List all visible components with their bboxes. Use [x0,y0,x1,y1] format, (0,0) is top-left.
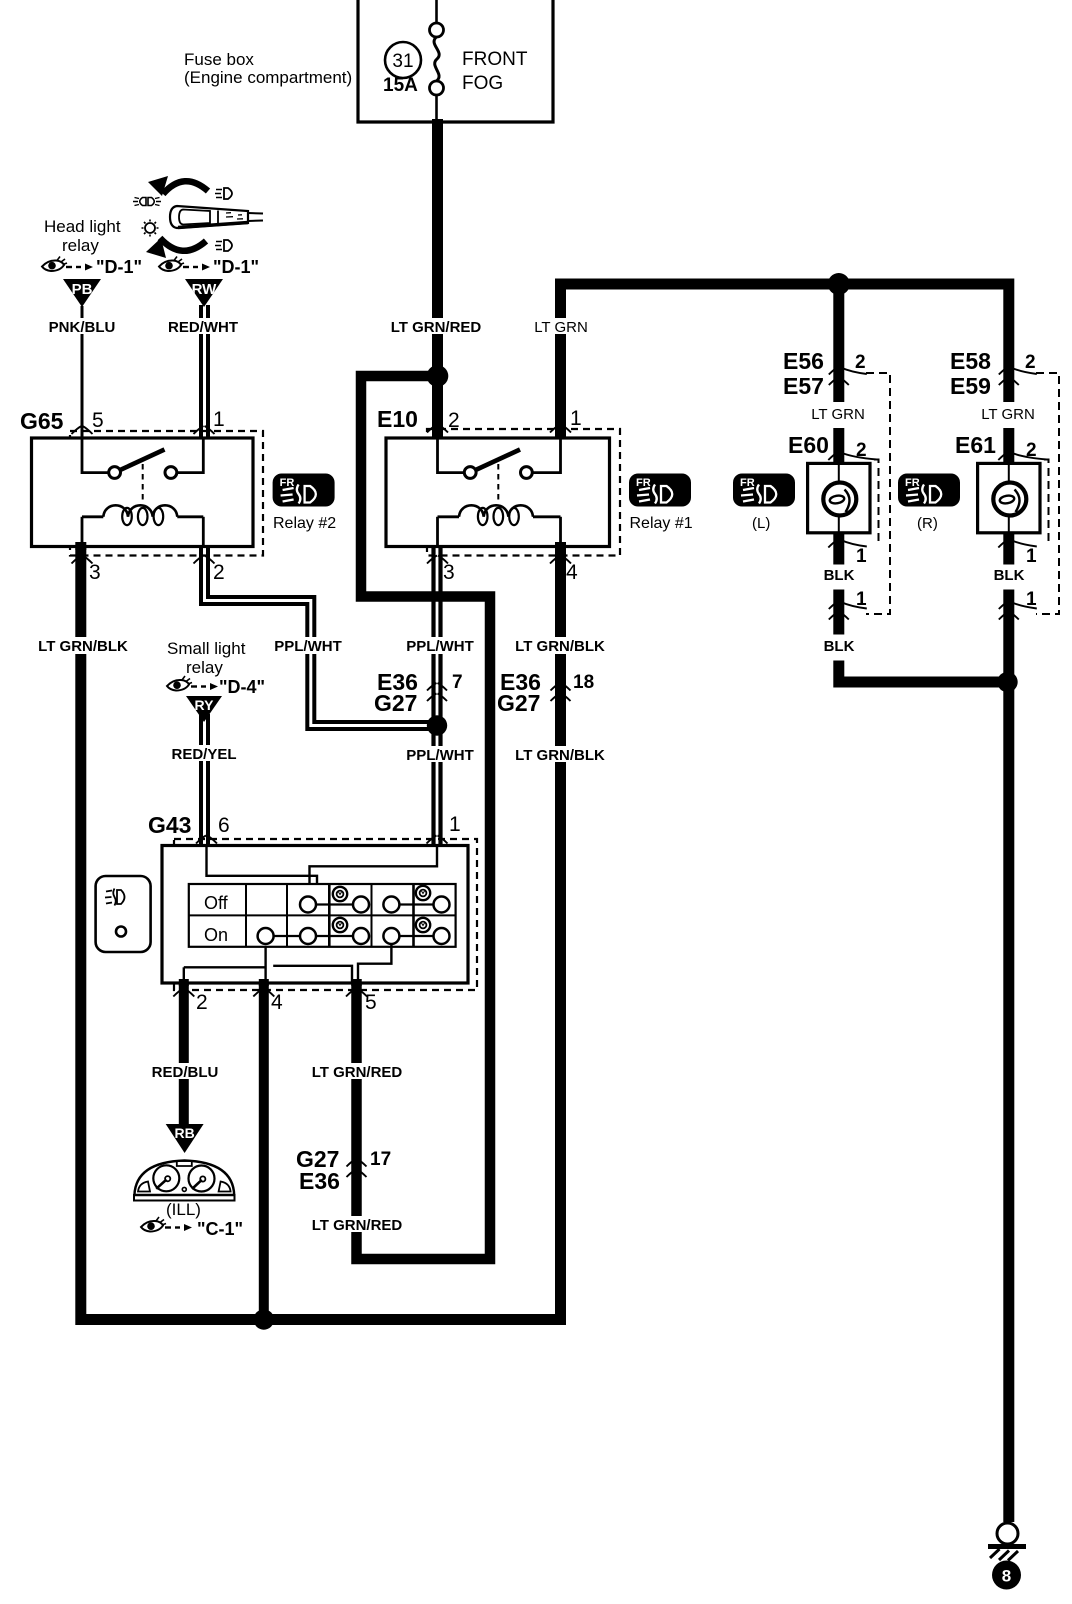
svg-text:G43: G43 [148,812,191,838]
svg-text:RED/BLU: RED/BLU [152,1064,219,1081]
svg-text:E58: E58 [950,348,991,374]
svg-text:RED/WHT: RED/WHT [168,319,238,336]
svg-text:(L): (L) [752,515,770,532]
svg-text:31: 31 [392,51,413,72]
svg-text:15A: 15A [383,75,418,96]
svg-text:1: 1 [856,589,867,610]
svg-text:"D-4": "D-4" [219,677,265,697]
svg-text:relay: relay [186,658,223,677]
svg-text:PNK/BLU: PNK/BLU [49,319,116,336]
svg-text:E61: E61 [955,432,996,458]
svg-text:BLK: BLK [824,638,855,655]
svg-text:LT GRN/BLK: LT GRN/BLK [515,638,605,655]
svg-text:E56: E56 [783,348,824,374]
svg-text:PPL/WHT: PPL/WHT [274,638,342,655]
svg-text:G65: G65 [20,408,64,434]
svg-text:PB: PB [72,281,93,298]
svg-text:1: 1 [1026,546,1037,567]
svg-text:E36: E36 [299,1168,340,1194]
svg-text:"D-1": "D-1" [213,257,259,277]
svg-text:4: 4 [271,991,283,1014]
svg-text:On: On [204,925,228,945]
svg-text:BLK: BLK [994,567,1025,584]
svg-text:G27: G27 [497,690,540,716]
svg-text:1: 1 [1026,589,1037,610]
svg-text:FRONT: FRONT [462,49,528,70]
svg-text:LT GRN/BLK: LT GRN/BLK [38,638,128,655]
svg-text:E59: E59 [950,373,991,399]
svg-text:"D-1": "D-1" [96,257,142,277]
svg-text:LT GRN: LT GRN [534,319,588,336]
svg-text:1: 1 [856,546,867,567]
svg-text:17: 17 [370,1149,391,1170]
svg-text:7: 7 [452,672,463,693]
svg-text:3: 3 [89,561,101,584]
svg-text:2: 2 [1026,440,1037,461]
svg-text:E10: E10 [377,406,418,432]
svg-text:2: 2 [448,409,460,432]
svg-text:2: 2 [196,991,208,1014]
svg-text:3: 3 [443,561,455,584]
svg-text:LT GRN: LT GRN [981,406,1035,423]
svg-text:18: 18 [573,672,594,693]
svg-text:RB: RB [174,1125,194,1141]
svg-text:Relay #1: Relay #1 [630,515,693,532]
svg-text:relay: relay [62,236,99,255]
svg-text:8: 8 [1002,1567,1011,1586]
svg-text:(R): (R) [917,515,938,532]
svg-text:LT GRN/BLK: LT GRN/BLK [515,747,605,764]
svg-text:E57: E57 [783,373,824,399]
svg-text:RED/YEL: RED/YEL [171,746,236,763]
svg-text:E60: E60 [788,432,829,458]
svg-text:RY: RY [195,697,215,713]
svg-text:BLK: BLK [824,567,855,584]
svg-text:4: 4 [566,561,578,584]
svg-text:2: 2 [213,561,225,584]
svg-text:LT GRN/RED: LT GRN/RED [312,1064,403,1081]
svg-text:Fuse box: Fuse box [184,50,254,69]
svg-text:PPL/WHT: PPL/WHT [406,638,474,655]
svg-text:Head light: Head light [44,217,121,236]
svg-text:LT GRN/RED: LT GRN/RED [312,1217,403,1234]
svg-text:G27: G27 [374,690,417,716]
svg-text:1: 1 [570,407,582,430]
svg-text:5: 5 [92,409,104,432]
svg-text:"C-1": "C-1" [197,1219,243,1239]
svg-text:Relay #2: Relay #2 [273,515,336,532]
svg-text:1: 1 [213,408,225,431]
svg-text:2: 2 [1025,352,1036,373]
svg-text:6: 6 [218,814,230,837]
svg-text:(ILL): (ILL) [166,1200,201,1219]
svg-text:5: 5 [365,991,377,1014]
svg-text:FOG: FOG [462,73,503,94]
svg-text:(Engine compartment): (Engine compartment) [184,68,352,87]
svg-text:Small light: Small light [167,639,246,658]
svg-text:PPL/WHT: PPL/WHT [406,747,474,764]
svg-text:2: 2 [856,440,867,461]
svg-text:1: 1 [449,813,461,836]
svg-text:LT GRN/RED: LT GRN/RED [391,319,482,336]
svg-text:Off: Off [204,893,229,913]
svg-text:2: 2 [855,352,866,373]
svg-text:LT GRN: LT GRN [811,406,865,423]
